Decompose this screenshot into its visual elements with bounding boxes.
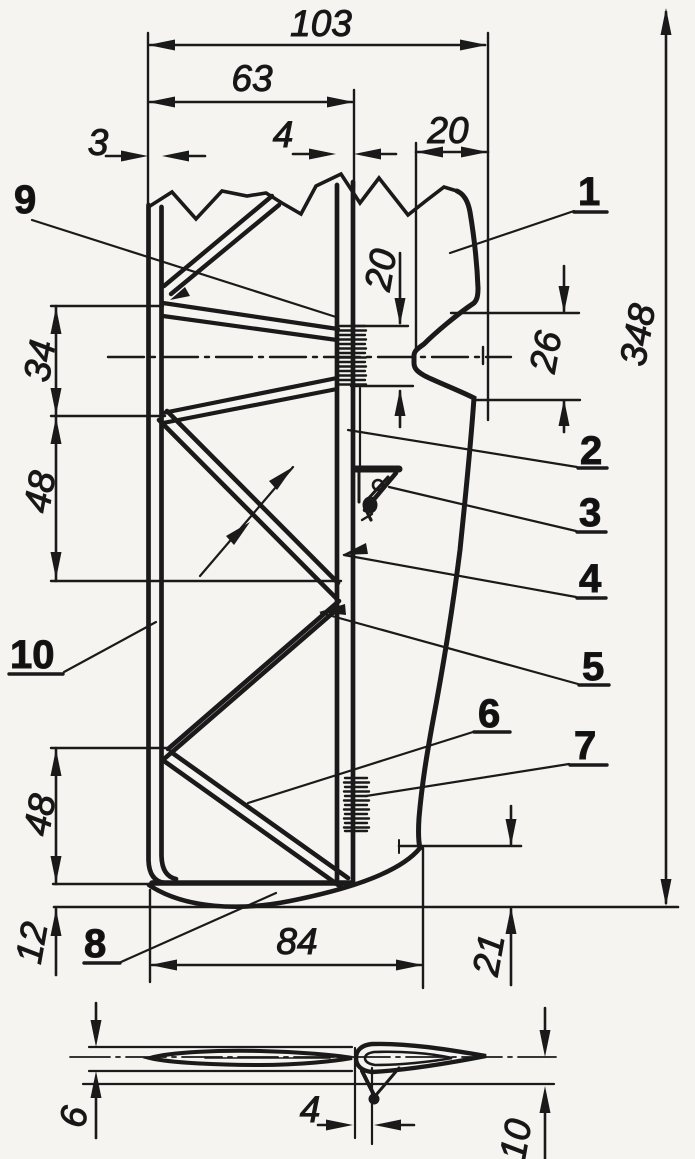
- svg-text:20: 20: [357, 246, 405, 295]
- svg-text:12: 12: [8, 919, 56, 967]
- svg-text:4: 4: [273, 114, 294, 155]
- hinge bracket connector line: [359, 388, 361, 466]
- upper rib pair (tapering to hinge): [163, 303, 338, 340]
- svg-text:5: 5: [582, 645, 604, 689]
- dimension 21: [399, 806, 521, 985]
- svg-text:10: 10: [492, 1116, 540, 1159]
- side view top surface line: [89, 1046, 352, 1048]
- svg-text:103: 103: [290, 3, 352, 44]
- svg-text:3: 3: [88, 122, 109, 163]
- left spar (part 10): [149, 205, 177, 883]
- leader 2: [348, 430, 577, 467]
- dimension 3: [88, 122, 205, 163]
- leader 4: [344, 555, 576, 597]
- extension line 48 bottom: [51, 580, 341, 582]
- dimension 84: [150, 848, 423, 988]
- svg-text:48: 48: [16, 791, 64, 839]
- upper hinge wrap (thread): [339, 326, 366, 385]
- svg-text:21: 21: [465, 931, 513, 980]
- side view fin lower surface line: [83, 1083, 554, 1085]
- bottom curved edge (part 8): [149, 848, 420, 907]
- dimension 348: [612, 8, 671, 906]
- leader 8: [121, 893, 276, 962]
- diagonal brace B: [164, 601, 339, 759]
- leader 9: [32, 220, 336, 317]
- jagged break line: [150, 174, 457, 219]
- leader 5: [321, 613, 578, 684]
- leader 1: [450, 211, 574, 253]
- dimension 10 (side): [492, 1008, 551, 1159]
- dimension 63: [148, 58, 354, 188]
- svg-text:7: 7: [574, 724, 596, 768]
- leader 10: [64, 622, 156, 672]
- baseline: [54, 906, 678, 909]
- hinge bracket (part 3): [356, 469, 399, 520]
- dimension 4 (side): [300, 1089, 414, 1131]
- svg-text:26: 26: [522, 328, 570, 377]
- extension line 48b bottom: [53, 883, 150, 885]
- fin outline: right edge, notch, trailing edge (part 1): [414, 191, 478, 848]
- fin cross-section teardrop: [356, 1044, 486, 1072]
- svg-text:3: 3: [579, 491, 601, 535]
- dimension 103: [148, 3, 488, 420]
- svg-text:4: 4: [300, 1089, 321, 1130]
- svg-text:1: 1: [578, 170, 600, 214]
- center line: [108, 356, 511, 358]
- top diagonal brace: [164, 196, 279, 294]
- svg-text:10: 10: [10, 633, 55, 677]
- side view spar verticals: [354, 1048, 356, 1138]
- dimension 26: [451, 266, 580, 432]
- diagonal brace C: [164, 752, 348, 887]
- lower rib pair: [163, 378, 337, 423]
- svg-text:84: 84: [276, 921, 317, 962]
- centerline tick at fin edge: [482, 347, 484, 364]
- diagonal brace A: [159, 411, 338, 598]
- side view bottom surface line: [89, 1070, 352, 1072]
- svg-text:34: 34: [16, 337, 64, 385]
- bottom bar: [152, 880, 353, 886]
- svg-text:4: 4: [579, 557, 602, 601]
- dimension 20 top: [416, 110, 488, 350]
- left dimension chain vertical: [51, 306, 62, 975]
- svg-text:8: 8: [84, 922, 106, 966]
- width callout arrows on diagonal A: [200, 467, 293, 576]
- svg-text:9: 9: [14, 178, 36, 222]
- svg-text:48: 48: [16, 468, 64, 516]
- side view center line: [70, 1056, 556, 1058]
- middle spar (part 2): [337, 182, 353, 881]
- lower wrap (part 7 thread): [344, 778, 369, 831]
- dimension 20 vertical (fin notch): [351, 246, 413, 427]
- rudder cross-section lens: [150, 1051, 352, 1065]
- side view hinge bracket: [362, 1071, 374, 1095]
- leader 7: [366, 764, 569, 796]
- svg-text:6: 6: [478, 692, 500, 736]
- extension line 34 bottom: [51, 415, 165, 417]
- svg-text:20: 20: [426, 110, 469, 151]
- extension line 34 top: [51, 305, 163, 307]
- dimension 6: [52, 1003, 102, 1138]
- extension line 48b top: [51, 747, 168, 749]
- svg-text:63: 63: [231, 58, 273, 99]
- dimension 4: [273, 114, 396, 160]
- leader 3: [389, 487, 576, 531]
- leader 6: [248, 732, 473, 803]
